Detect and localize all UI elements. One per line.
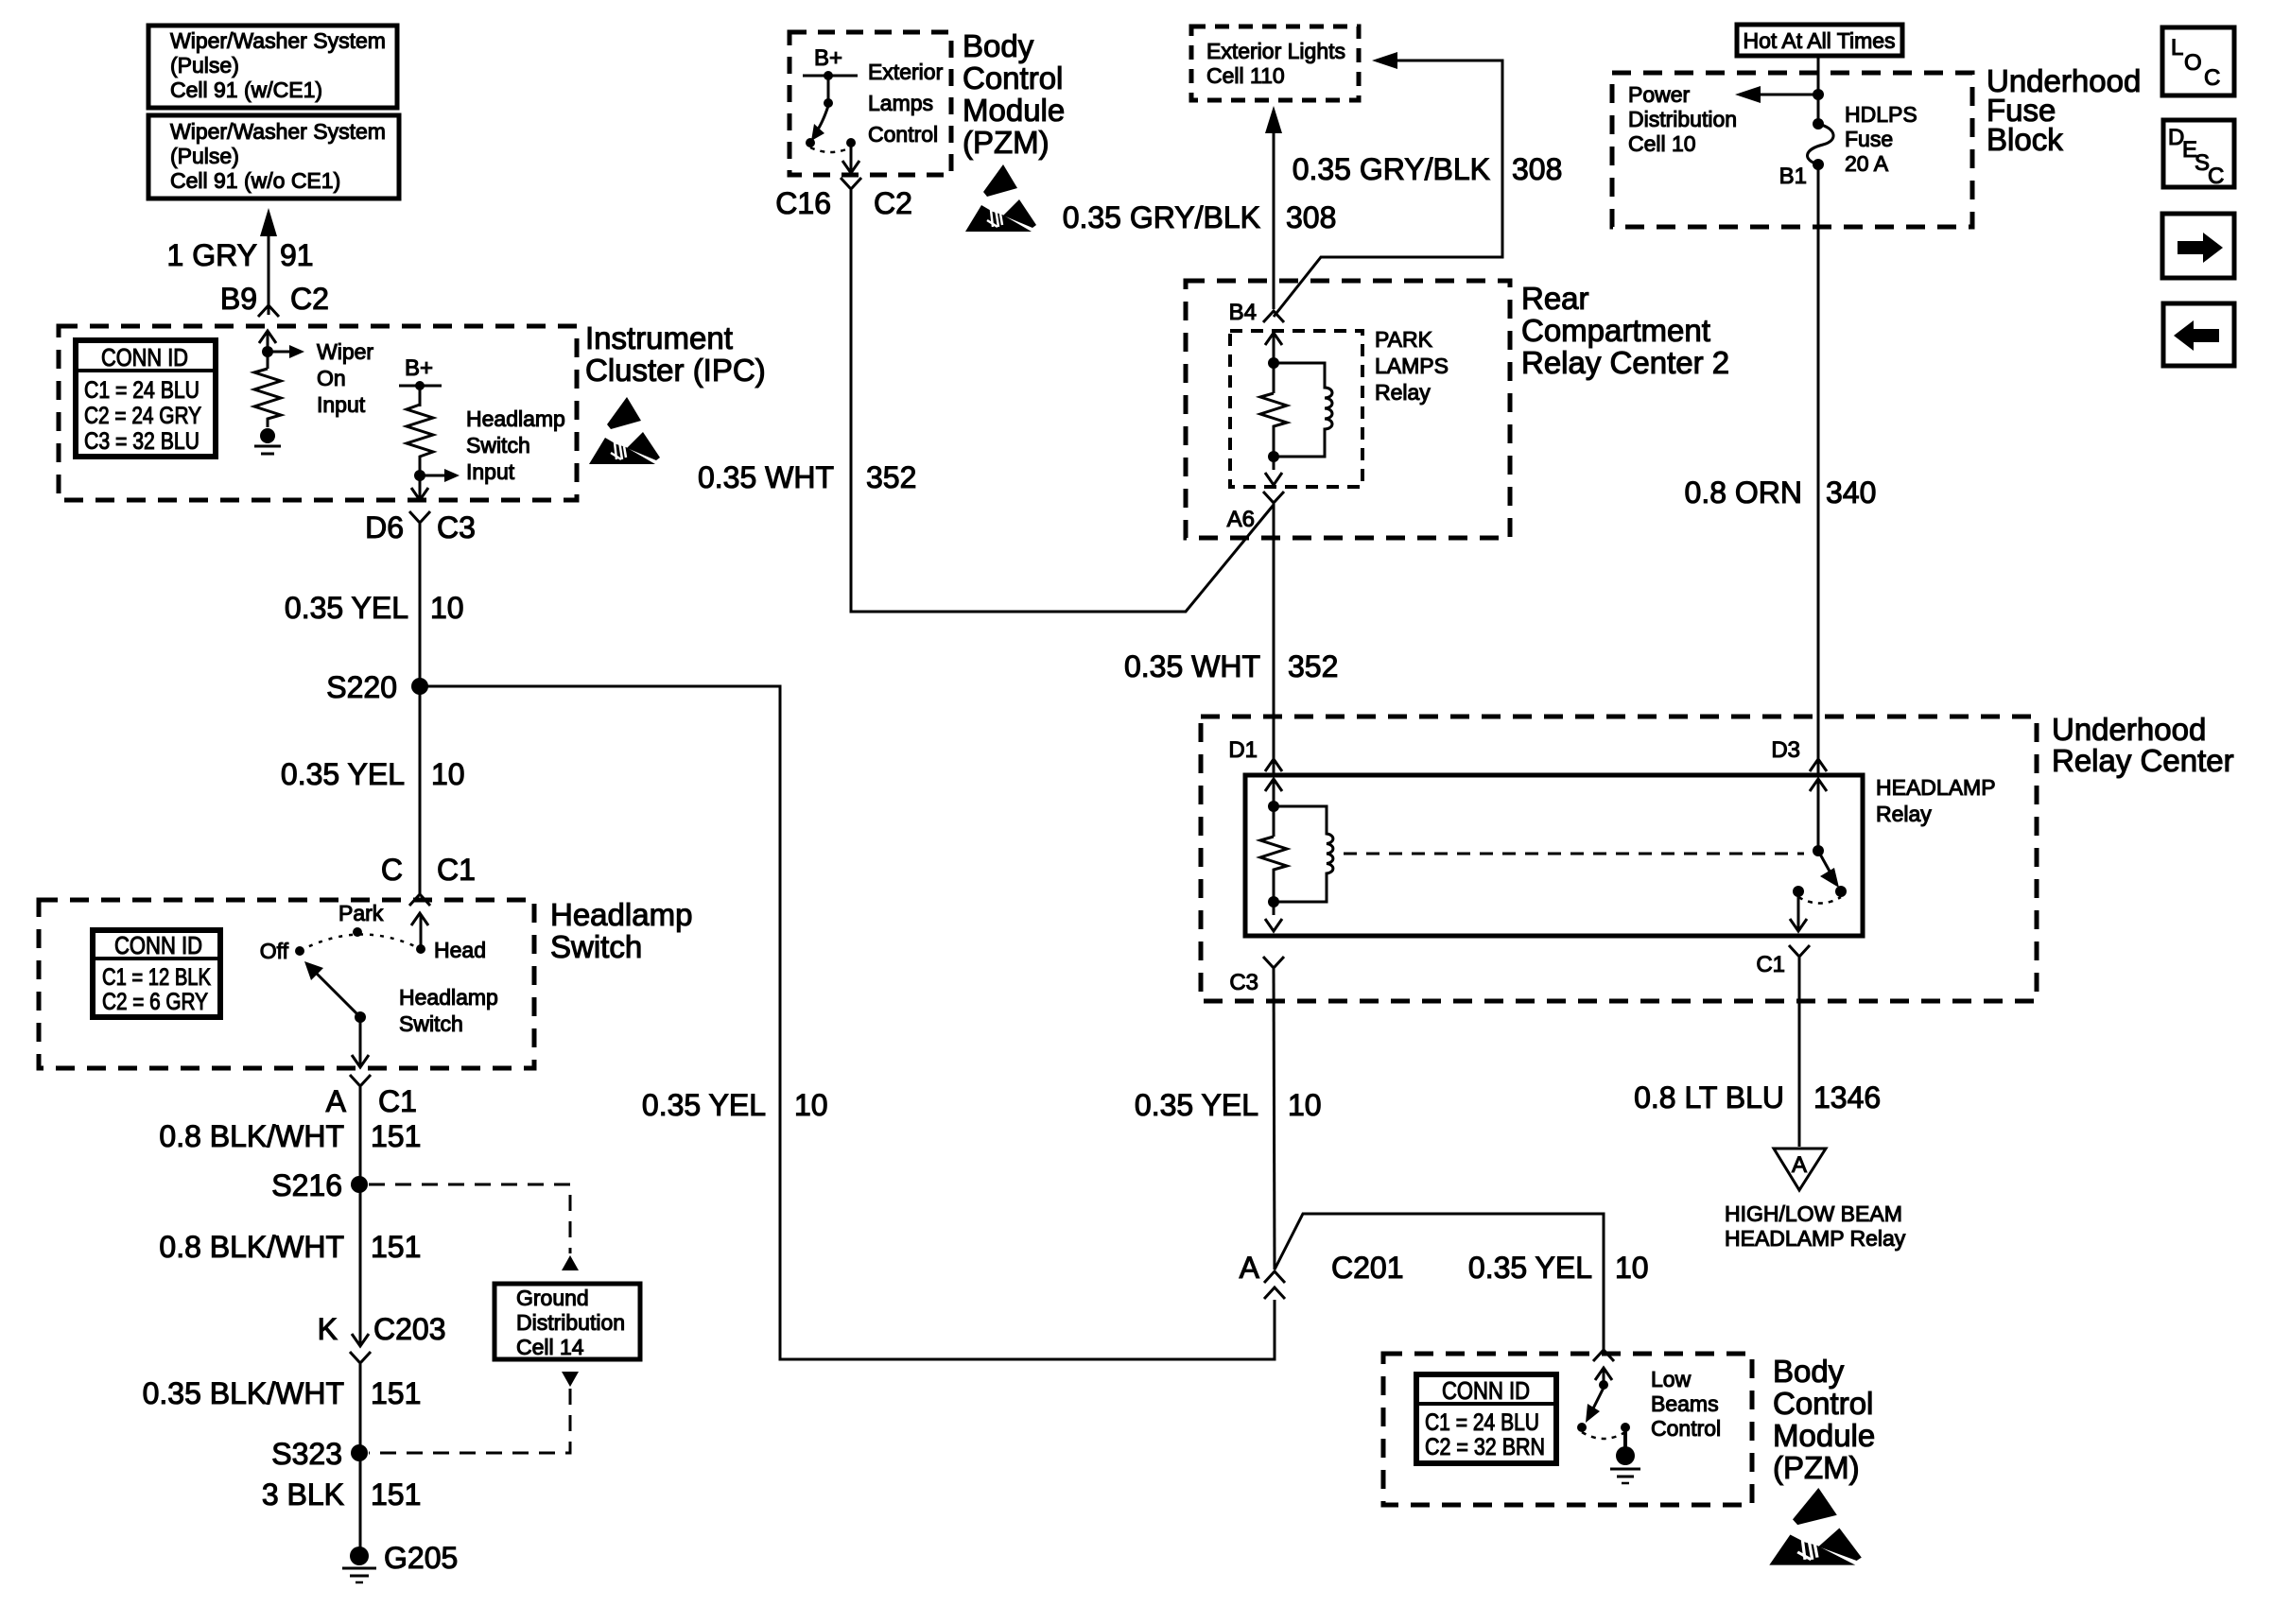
svg-text:Control: Control bbox=[1773, 1386, 1873, 1421]
svg-text:Relay Center 2: Relay Center 2 bbox=[1521, 345, 1729, 380]
svg-text:C: C bbox=[2208, 164, 2224, 189]
wire into headlamp relay coil from D1 bbox=[1265, 779, 1282, 837]
label 0.35 GRY/BLK 308 (right wire) bbox=[1293, 152, 1563, 186]
splice S220 bbox=[326, 670, 428, 704]
node Off contact bbox=[260, 939, 304, 963]
dashed contact arc low beams switch bbox=[1582, 1432, 1625, 1439]
svg-text:91: 91 bbox=[280, 238, 314, 272]
svg-text:(Pulse): (Pulse) bbox=[170, 144, 239, 168]
svg-text:B+: B+ bbox=[814, 45, 842, 71]
svg-text:352: 352 bbox=[866, 460, 916, 494]
svg-text:Control: Control bbox=[963, 60, 1063, 95]
svg-text:LAMPS: LAMPS bbox=[1375, 354, 1449, 378]
wire out of headlamp relay coil to C3 bbox=[1265, 919, 1282, 931]
dashed branch ground distribution to S323 bbox=[369, 1372, 579, 1453]
svg-text:Headlamp: Headlamp bbox=[466, 406, 565, 431]
node exterior lamps switch pivot bbox=[824, 98, 833, 108]
node: wiper on junction dot bbox=[262, 346, 273, 357]
svg-text:10: 10 bbox=[1288, 1088, 1322, 1122]
svg-text:0.35 YEL: 0.35 YEL bbox=[1468, 1251, 1592, 1285]
svg-text:D6: D6 bbox=[365, 510, 404, 544]
node headlamp relay switch pivot bbox=[1813, 845, 1824, 856]
node low beams switch pivot bbox=[1599, 1380, 1608, 1390]
wire circuit 352 A6 down to D1 bbox=[1273, 504, 1275, 773]
pin D1 bbox=[1228, 737, 1282, 771]
node Park contact bbox=[338, 901, 384, 937]
wiper/washer system (w/CE1) reference box bbox=[148, 26, 397, 108]
svg-text:C3 = 32 BLU: C3 = 32 BLU bbox=[84, 428, 200, 455]
svg-text:HDLPS: HDLPS bbox=[1845, 102, 1917, 127]
pin D3 bbox=[1771, 737, 1827, 771]
wire circuit 1346 C1 down to triangle A bbox=[1798, 958, 1801, 1147]
svg-text:CONN ID: CONN ID bbox=[114, 931, 202, 959]
wire into park lamps relay from B4 bbox=[1265, 333, 1282, 393]
svg-text:(PZM): (PZM) bbox=[1773, 1450, 1860, 1485]
ESD symbol PZM top bbox=[965, 164, 1036, 232]
svg-text:1 GRY: 1 GRY bbox=[167, 238, 257, 272]
svg-text:Wiper/Washer System: Wiper/Washer System bbox=[170, 119, 386, 144]
svg-text:Control: Control bbox=[1651, 1416, 1721, 1441]
wire from hot at all times into fuse block bbox=[1817, 56, 1820, 124]
label 1 GRY 91 bbox=[167, 238, 314, 272]
connector B4 bbox=[1229, 300, 1284, 325]
wire branch C201 to low beams control bbox=[1275, 1214, 1604, 1350]
svg-text:Block: Block bbox=[1987, 122, 2063, 157]
svg-text:Instrument: Instrument bbox=[585, 320, 733, 355]
wire circuit 352 from PZM to A6 bbox=[851, 190, 1274, 612]
headlamp relay label bbox=[1876, 775, 1996, 826]
svg-text:Module: Module bbox=[963, 93, 1065, 128]
coil headlamp relay bbox=[1274, 806, 1333, 902]
high/low beam headlamp relay note bbox=[1725, 1201, 1906, 1251]
svg-text:B1: B1 bbox=[1779, 164, 1807, 189]
svg-text:Exterior: Exterior bbox=[868, 60, 944, 84]
dashed actuation link coil to switch bbox=[1344, 853, 1804, 855]
svg-text:C1: C1 bbox=[437, 853, 476, 887]
wire IPC output C3 bbox=[411, 475, 428, 500]
wire out of park lamps relay to A6 bbox=[1265, 473, 1282, 485]
exterior lights cell 110 box bbox=[1191, 26, 1359, 100]
svg-text:0.35 YEL: 0.35 YEL bbox=[281, 757, 405, 791]
node B+ feed headlamp switch input bbox=[399, 355, 442, 390]
svg-text:L: L bbox=[2171, 35, 2183, 60]
svg-text:C1 = 12 BLK: C1 = 12 BLK bbox=[102, 964, 211, 991]
svg-text:151: 151 bbox=[371, 1230, 421, 1264]
rear compartment relay center 2 dashed box bbox=[1186, 281, 1510, 538]
coil park lamps relay bbox=[1274, 363, 1332, 457]
headlamp switch internal text bbox=[399, 985, 498, 1036]
node exterior lamps output contact bbox=[846, 138, 856, 147]
instrument cluster label bbox=[585, 320, 766, 388]
connector C/C1 bbox=[381, 853, 476, 906]
dashed contact arc exterior lamps switch bbox=[810, 147, 851, 152]
svg-text:0.35 WHT: 0.35 WHT bbox=[698, 460, 834, 494]
wire circuit 308 loop to exterior lights bbox=[1274, 52, 1502, 317]
svg-text:Input: Input bbox=[317, 392, 366, 417]
resistor park lamps relay bbox=[1260, 393, 1287, 470]
svg-text:A6: A6 bbox=[1227, 507, 1255, 532]
wire headlamp relay contact to C1 bbox=[1790, 891, 1807, 931]
CONN ID box IPC bbox=[76, 340, 216, 457]
svg-text:10: 10 bbox=[794, 1088, 828, 1122]
label 0.35 WHT 352 (lower) bbox=[1124, 649, 1338, 683]
svg-text:D1: D1 bbox=[1228, 737, 1258, 763]
pin C1 bbox=[1756, 945, 1810, 977]
svg-text:C2 = 32 BRN: C2 = 32 BRN bbox=[1425, 1434, 1545, 1460]
svg-text:Park: Park bbox=[338, 901, 384, 925]
svg-text:Switch: Switch bbox=[466, 433, 530, 458]
DESC box bbox=[2163, 120, 2234, 189]
svg-text:(PZM): (PZM) bbox=[963, 125, 1050, 160]
svg-text:Cluster (IPC): Cluster (IPC) bbox=[585, 353, 766, 388]
svg-text:Head: Head bbox=[434, 938, 486, 962]
wire circuit 151 S216 to C203 bbox=[359, 1184, 362, 1346]
svg-text:C3: C3 bbox=[1229, 970, 1258, 995]
svg-text:Fuse: Fuse bbox=[1845, 127, 1893, 151]
svg-text:A: A bbox=[1240, 1251, 1260, 1285]
svg-text:Wiper: Wiper bbox=[317, 339, 373, 364]
wire switch arm down to connector A bbox=[352, 1017, 369, 1067]
svg-text:Distribution: Distribution bbox=[1628, 107, 1737, 131]
label 0.35 YEL 10 bbox=[285, 591, 464, 625]
svg-text:(Pulse): (Pulse) bbox=[170, 53, 239, 78]
svg-text:Beams: Beams bbox=[1651, 1391, 1719, 1416]
svg-text:C3: C3 bbox=[437, 510, 476, 544]
dashed contact arc headlamp relay bbox=[1798, 897, 1841, 904]
svg-text:CONN ID: CONN ID bbox=[101, 343, 188, 371]
svg-text:0.35 WHT: 0.35 WHT bbox=[1124, 649, 1260, 683]
svg-text:G205: G205 bbox=[384, 1541, 458, 1575]
fuse HDLPS 20A bbox=[1808, 102, 1917, 176]
wire circuit 10 from IPC to S220 bbox=[419, 524, 422, 894]
ground inside BCM bbox=[1610, 1427, 1640, 1483]
label 0.8 BLK/WHT 151 (second) bbox=[159, 1230, 421, 1264]
connector A/C201 bbox=[1240, 1251, 1404, 1299]
svg-text:Relay Center: Relay Center bbox=[2052, 743, 2234, 778]
svg-text:0.35 YEL: 0.35 YEL bbox=[1135, 1088, 1258, 1122]
svg-text:A: A bbox=[326, 1084, 347, 1118]
svg-text:3 BLK: 3 BLK bbox=[262, 1477, 344, 1512]
CONN ID box headlamp switch bbox=[93, 930, 220, 1017]
underhood relay center dashed box bbox=[1201, 717, 2037, 1001]
svg-text:C2: C2 bbox=[874, 186, 912, 220]
svg-text:Distribution: Distribution bbox=[516, 1310, 625, 1335]
svg-text:Headlamp: Headlamp bbox=[550, 897, 692, 932]
park lamps relay label bbox=[1375, 327, 1449, 405]
svg-text:Underhood: Underhood bbox=[2052, 712, 2206, 747]
ground distribution cell 14 box bbox=[495, 1284, 640, 1359]
svg-text:HIGH/LOW BEAM: HIGH/LOW BEAM bbox=[1725, 1201, 1902, 1226]
wire low beams connector into switch bbox=[1595, 1368, 1612, 1385]
resistor headlamp relay bbox=[1260, 837, 1287, 915]
svg-text:C201: C201 bbox=[1331, 1251, 1404, 1285]
label 0.35 GRY/BLK 308 (left wire) bbox=[1063, 200, 1337, 234]
hot at all times box bbox=[1737, 25, 1902, 56]
connector B9/C2 bbox=[220, 282, 329, 317]
svg-text:O: O bbox=[2184, 50, 2202, 76]
body control module dashed box bottom bbox=[1383, 1354, 1752, 1505]
body control module (PZM) dashed box top bbox=[789, 32, 951, 175]
svg-text:Exterior Lights: Exterior Lights bbox=[1206, 39, 1345, 63]
headlamp relay switch arm bbox=[1818, 851, 1839, 888]
node park relay coil top junction bbox=[1268, 357, 1279, 369]
svg-text:C1: C1 bbox=[1756, 952, 1785, 977]
svg-text:C: C bbox=[2204, 65, 2220, 91]
svg-text:B+: B+ bbox=[405, 355, 433, 381]
svg-text:PARK: PARK bbox=[1375, 327, 1433, 352]
svg-text:Hot At All Times: Hot At All Times bbox=[1743, 28, 1895, 53]
connector D6/C3 bbox=[365, 510, 476, 544]
label 0.8 LT BLU 1346 bbox=[1634, 1080, 1881, 1114]
svg-text:S220: S220 bbox=[326, 670, 397, 704]
wire circuit 151 S323 to G205 bbox=[359, 1453, 362, 1550]
svg-text:C203: C203 bbox=[373, 1312, 446, 1346]
svg-text:C: C bbox=[381, 853, 403, 887]
svg-text:HEADLAMP Relay: HEADLAMP Relay bbox=[1725, 1226, 1906, 1251]
park lamps relay dashed box bbox=[1230, 331, 1362, 487]
svg-text:Relay: Relay bbox=[1876, 802, 1932, 826]
label 3 BLK 151 bbox=[262, 1477, 422, 1512]
svg-text:C1 = 24 BLU: C1 = 24 BLU bbox=[1425, 1409, 1539, 1436]
svg-text:Cell 91 (w/o CE1): Cell 91 (w/o CE1) bbox=[170, 168, 340, 193]
node headlamp relay coil bottom junction bbox=[1268, 896, 1279, 907]
pin C3 bbox=[1229, 957, 1284, 995]
svg-text:352: 352 bbox=[1288, 649, 1338, 683]
connector C16/C2 bbox=[775, 178, 912, 220]
node headlamp switch pivot bbox=[355, 1011, 366, 1023]
svg-text:C1: C1 bbox=[378, 1084, 417, 1118]
power distribution arrow bbox=[1628, 82, 1824, 156]
svg-text:S216: S216 bbox=[271, 1168, 342, 1202]
exterior lamps control switch arm bbox=[811, 106, 828, 141]
ground G205 bbox=[342, 1541, 458, 1582]
svg-text:0.8 LT BLU: 0.8 LT BLU bbox=[1634, 1080, 1784, 1114]
wire from S220 to C201 bbox=[420, 686, 1275, 1359]
svg-text:0.8 BLK/WHT: 0.8 BLK/WHT bbox=[159, 1119, 344, 1153]
off-page connector triangle A bbox=[1774, 1149, 1826, 1190]
svg-text:Compartment: Compartment bbox=[1521, 313, 1710, 348]
svg-text:Off: Off bbox=[260, 939, 289, 963]
splice S323 bbox=[271, 1437, 368, 1471]
connector low beams control bbox=[1593, 1350, 1614, 1361]
node headlamp relay coil top junction bbox=[1268, 801, 1279, 812]
svg-text:0.35 GRY/BLK: 0.35 GRY/BLK bbox=[1293, 152, 1490, 186]
body control module label top bbox=[963, 28, 1065, 160]
wiper on input branch wire bbox=[259, 331, 276, 369]
svg-text:On: On bbox=[317, 366, 346, 390]
splice S216 bbox=[271, 1168, 368, 1202]
underhood fuse block dashed box bbox=[1612, 73, 1972, 227]
svg-text:Ground: Ground bbox=[516, 1286, 589, 1310]
CONN ID box BCM bbox=[1416, 1374, 1556, 1463]
wire exterior lamps control to C2 bbox=[842, 147, 859, 173]
svg-text:0.35 YEL: 0.35 YEL bbox=[285, 591, 408, 625]
wiper on input arrow bbox=[268, 339, 373, 417]
label 0.35 YEL 10 (center) bbox=[1135, 1088, 1322, 1122]
wire arrow up into exterior lights bbox=[1265, 106, 1282, 309]
svg-text:Headlamp: Headlamp bbox=[399, 985, 498, 1010]
node park relay coil bottom junction bbox=[1268, 451, 1279, 462]
label 0.35 YEL 10 (right) bbox=[1468, 1251, 1649, 1285]
node headlamp relay NO contact bbox=[1835, 886, 1847, 897]
svg-text:151: 151 bbox=[371, 1119, 421, 1153]
resistor headlamp switch input bbox=[407, 386, 433, 475]
svg-text:C1 = 24 BLU: C1 = 24 BLU bbox=[84, 377, 200, 404]
svg-text:C2 = 24 GRY: C2 = 24 GRY bbox=[84, 403, 201, 429]
svg-text:B4: B4 bbox=[1229, 300, 1257, 325]
svg-text:S323: S323 bbox=[271, 1437, 342, 1471]
svg-text:Rear: Rear bbox=[1521, 281, 1589, 316]
LOC box bbox=[2162, 27, 2234, 95]
wiper/washer system (w/o CE1) reference box bbox=[148, 115, 399, 199]
svg-text:Switch: Switch bbox=[550, 929, 642, 964]
svg-text:0.35 YEL: 0.35 YEL bbox=[642, 1088, 766, 1122]
svg-text:CONN ID: CONN ID bbox=[1442, 1376, 1530, 1405]
svg-text:Cell 10: Cell 10 bbox=[1628, 131, 1696, 156]
svg-text:151: 151 bbox=[371, 1477, 421, 1512]
label 0.8 ORN 340 bbox=[1685, 475, 1877, 510]
wire into headlamp relay switch from D3 bbox=[1810, 779, 1827, 851]
rear compartment relay center 2 label bbox=[1521, 281, 1729, 380]
headlamp switch label bbox=[550, 897, 692, 964]
svg-text:0.8 ORN: 0.8 ORN bbox=[1685, 475, 1802, 510]
node low beams open contact bbox=[1577, 1423, 1587, 1432]
svg-text:308: 308 bbox=[1512, 152, 1562, 186]
right arrow nav box bbox=[2162, 214, 2234, 278]
svg-text:20 A: 20 A bbox=[1845, 151, 1889, 176]
svg-text:Wiper/Washer System: Wiper/Washer System bbox=[170, 28, 386, 53]
exterior lamps control text bbox=[868, 60, 944, 147]
wire circuit 151 down to S216 bbox=[359, 1087, 362, 1184]
label 0.35 YEL 10 (below S220) bbox=[281, 757, 465, 791]
svg-text:D3: D3 bbox=[1771, 737, 1800, 763]
underhood relay center label bbox=[2052, 712, 2234, 778]
svg-text:Body: Body bbox=[963, 28, 1034, 63]
svg-text:1346: 1346 bbox=[1813, 1080, 1881, 1114]
svg-text:K: K bbox=[318, 1312, 338, 1346]
svg-text:HEADLAMP: HEADLAMP bbox=[1876, 775, 1996, 800]
svg-text:C2 = 6 GRY: C2 = 6 GRY bbox=[102, 989, 208, 1015]
svg-text:Control: Control bbox=[868, 122, 938, 147]
svg-text:Input: Input bbox=[466, 459, 515, 484]
svg-text:Switch: Switch bbox=[399, 1011, 463, 1036]
node low beams grounded contact bbox=[1621, 1423, 1630, 1432]
svg-text:308: 308 bbox=[1286, 200, 1336, 234]
svg-text:0.35 GRY/BLK: 0.35 GRY/BLK bbox=[1063, 200, 1260, 234]
label 0.35 WHT 352 (upper) bbox=[698, 460, 916, 494]
node exterior lamps off contact bbox=[806, 138, 815, 147]
resistor wiper on input bbox=[254, 369, 281, 427]
svg-text:Cell 91 (w/CE1): Cell 91 (w/CE1) bbox=[170, 78, 322, 102]
svg-text:340: 340 bbox=[1826, 475, 1876, 510]
B+ feed exterior lamps control bbox=[803, 45, 858, 103]
svg-text:151: 151 bbox=[371, 1376, 421, 1410]
headlamp switch input arrow bbox=[420, 406, 565, 484]
connector A6 bbox=[1227, 492, 1284, 532]
connector A/C1 headlamp switch bbox=[326, 1075, 417, 1118]
node Head contact bbox=[416, 938, 486, 962]
svg-text:Module: Module bbox=[1773, 1418, 1875, 1453]
connector K/C203 bbox=[318, 1312, 446, 1363]
headlamp switch arm bbox=[304, 961, 360, 1017]
svg-text:C16: C16 bbox=[775, 186, 831, 220]
svg-text:Body: Body bbox=[1773, 1354, 1845, 1389]
headlamp relay box bbox=[1245, 775, 1863, 936]
wire circuit 340 fuse to D3 bbox=[1817, 164, 1820, 773]
wire circuit 151 C203 to S323 bbox=[359, 1364, 362, 1453]
node: headlamp switch input junction bbox=[414, 470, 425, 481]
body control module label bottom bbox=[1773, 1354, 1875, 1485]
svg-text:Relay: Relay bbox=[1375, 380, 1431, 405]
svg-text:0.8 BLK/WHT: 0.8 BLK/WHT bbox=[159, 1230, 344, 1264]
label 0.35 BLK/WHT 151 bbox=[143, 1376, 422, 1410]
svg-text:B9: B9 bbox=[220, 282, 257, 316]
instrument cluster (IPC) dashed box bbox=[59, 326, 577, 500]
svg-text:C2: C2 bbox=[290, 282, 329, 316]
low beams control text bbox=[1651, 1367, 1721, 1441]
left arrow nav box bbox=[2163, 303, 2234, 366]
underhood fuse block label bbox=[1987, 63, 2141, 157]
svg-text:10: 10 bbox=[430, 591, 464, 625]
svg-text:10: 10 bbox=[431, 757, 465, 791]
svg-text:Cell 110: Cell 110 bbox=[1206, 63, 1285, 88]
label 0.35 YEL 10 (left branch wire) bbox=[642, 1088, 828, 1122]
label 0.8 BLK/WHT 151 bbox=[159, 1119, 421, 1153]
svg-text:Low: Low bbox=[1651, 1367, 1692, 1391]
svg-text:A: A bbox=[1792, 1152, 1807, 1178]
svg-text:Lamps: Lamps bbox=[868, 91, 933, 115]
ESD symbol BCM bottom bbox=[1769, 1488, 1862, 1565]
headlamp switch dashed box bbox=[39, 900, 534, 1068]
ground inside IPC bbox=[254, 428, 281, 454]
dashed selector arc Off-Park-Head bbox=[300, 934, 421, 951]
low beams control switch arm bbox=[1586, 1388, 1604, 1423]
dashed branch S216 to ground distribution bbox=[369, 1184, 579, 1270]
svg-text:Cell 14: Cell 14 bbox=[516, 1335, 584, 1359]
node headlamp relay output contact bbox=[1793, 886, 1804, 897]
svg-text:Power: Power bbox=[1628, 82, 1691, 107]
wire circuit 91 to wiper/washer system bbox=[260, 208, 277, 315]
svg-text:10: 10 bbox=[1615, 1251, 1649, 1285]
wire circuit 10 C3 down to C201 bbox=[1274, 969, 1275, 1270]
svg-text:0.35 BLK/WHT: 0.35 BLK/WHT bbox=[143, 1376, 344, 1410]
wire head contact up to C1 bbox=[411, 913, 428, 949]
ESD symbol IPC bbox=[589, 397, 660, 464]
